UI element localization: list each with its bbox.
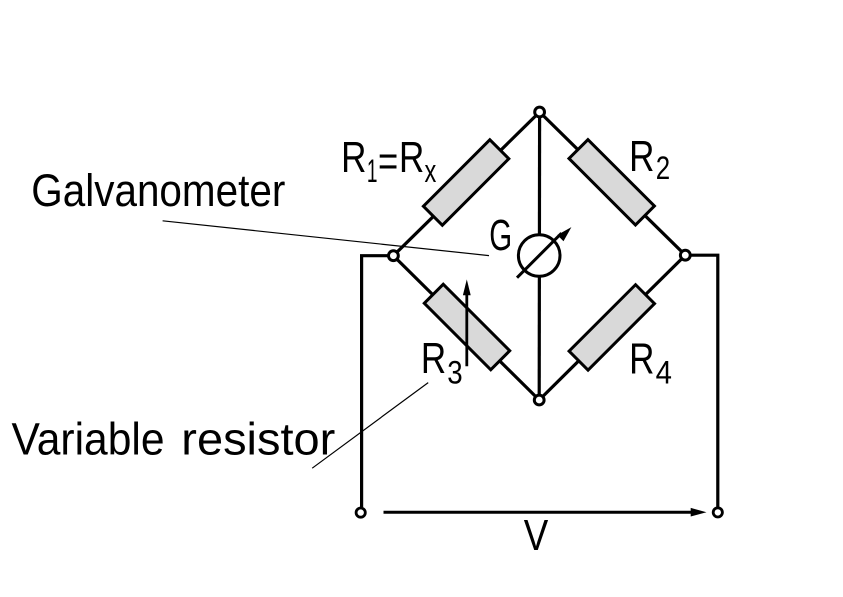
svg-text:resistor: resistor <box>181 414 335 465</box>
svg-text:1: 1 <box>367 153 378 189</box>
svg-text:R: R <box>629 132 654 181</box>
svg-text:2: 2 <box>656 150 670 186</box>
svg-text:R: R <box>629 334 654 383</box>
svg-text:R: R <box>421 334 446 383</box>
svg-text:Variable: Variable <box>12 414 165 465</box>
svg-text:x: x <box>425 153 437 189</box>
svg-text:4: 4 <box>656 355 672 391</box>
svg-text:G: G <box>489 211 512 260</box>
svg-text:Galvanometer: Galvanometer <box>31 165 285 216</box>
svg-text:R: R <box>341 133 366 182</box>
svg-text:R: R <box>399 133 424 182</box>
svg-text:3: 3 <box>447 355 462 391</box>
svg-text:=: = <box>378 137 398 186</box>
svg-text:V: V <box>524 511 549 560</box>
